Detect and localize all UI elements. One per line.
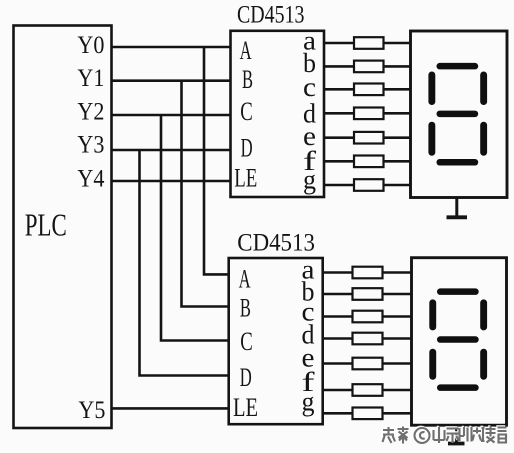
svg-text:CD4513: CD4513 bbox=[237, 230, 315, 257]
ground for DS1 bbox=[447, 198, 468, 217]
svg-text:Y2: Y2 bbox=[77, 99, 104, 126]
7-segment display DS1 box bbox=[411, 31, 508, 198]
svg-text:A: A bbox=[240, 35, 252, 65]
svg-text:B: B bbox=[240, 293, 251, 323]
resistor R14 bbox=[353, 408, 383, 420]
IC U1 CD4513 box (top) bbox=[231, 31, 325, 197]
resistor R12 bbox=[353, 358, 383, 370]
resistor R1 bbox=[354, 37, 384, 49]
svg-text:g: g bbox=[303, 165, 316, 195]
wire branch C vertical to U2.C bbox=[161, 115, 229, 341]
svg-text:D: D bbox=[240, 362, 252, 392]
wire R10 to DS2 bbox=[383, 315, 412, 318]
wire U2.a to R8 bbox=[323, 271, 353, 274]
svg-text:PLC: PLC bbox=[25, 207, 67, 243]
resistor R5 bbox=[354, 132, 384, 144]
wire branch B vertical to U2.B bbox=[182, 81, 229, 307]
svg-text:Y0: Y0 bbox=[77, 32, 104, 59]
wire U1.d to R4 bbox=[324, 112, 354, 115]
resistor R2 bbox=[354, 61, 384, 73]
wire R6 to DS1 bbox=[384, 160, 411, 163]
resistor R11 bbox=[353, 333, 383, 345]
svg-text:D: D bbox=[241, 132, 253, 162]
svg-text:A: A bbox=[239, 263, 251, 293]
watermark 头条@山东创控教育 bbox=[381, 425, 506, 443]
wire U2.c to R10 bbox=[323, 315, 353, 318]
wire U2.e to R12 bbox=[323, 362, 353, 365]
wire U2.f to R13 bbox=[323, 389, 353, 392]
wire U1.b to R2 bbox=[324, 65, 354, 68]
ground for DS2 bbox=[448, 425, 465, 443]
svg-text:LE: LE bbox=[233, 392, 258, 422]
svg-text:C: C bbox=[240, 96, 253, 126]
wire U2.b to R9 bbox=[323, 293, 353, 296]
wire U1.f to R6 bbox=[324, 160, 354, 163]
wire R11 to DS2 bbox=[383, 337, 412, 340]
wire U1.g to R7 bbox=[324, 184, 354, 187]
svg-text:Y4: Y4 bbox=[77, 166, 104, 193]
svg-text:C: C bbox=[240, 326, 253, 356]
resistor R3 bbox=[354, 84, 384, 96]
wire R3 to DS1 bbox=[384, 88, 411, 91]
wire U2.d to R11 bbox=[323, 337, 353, 340]
wire R12 to DS2 bbox=[383, 362, 412, 365]
wire R14 to DS2 bbox=[383, 412, 412, 415]
resistor R10 bbox=[353, 311, 383, 323]
wire Y0 to U1.A bbox=[112, 46, 231, 49]
wire Y4 to U1.LE bbox=[112, 180, 231, 183]
wire R1 to DS1 bbox=[384, 42, 411, 45]
wire Y3 to U1.D bbox=[112, 149, 231, 152]
wire branch D vertical to U2.D bbox=[140, 150, 229, 376]
svg-text:LE: LE bbox=[234, 162, 257, 192]
wire R4 to DS1 bbox=[384, 112, 411, 115]
wire Y2 to U1.C bbox=[112, 114, 231, 117]
wire U1.e to R5 bbox=[324, 136, 354, 139]
IC U2 CD4513 box (bottom) bbox=[229, 258, 323, 424]
svg-text:c: c bbox=[303, 72, 316, 102]
display DS2 digit 8 segments bbox=[429, 288, 487, 391]
wire R2 to DS1 bbox=[384, 65, 411, 68]
wire U2.g to R14 bbox=[323, 412, 353, 415]
wire R13 to DS2 bbox=[383, 389, 412, 392]
wire R9 to DS2 bbox=[383, 293, 412, 296]
wire R8 to DS2 bbox=[383, 271, 412, 274]
PLC box bbox=[14, 26, 112, 429]
resistor R9 bbox=[353, 288, 383, 300]
resistor R6 bbox=[354, 156, 384, 168]
svg-text:B: B bbox=[242, 64, 253, 94]
resistor R8 bbox=[353, 267, 383, 279]
wire Y5 to U2.LE bbox=[112, 407, 229, 410]
svg-text:Y1: Y1 bbox=[77, 65, 104, 92]
svg-text:g: g bbox=[302, 387, 315, 417]
wire branch A vertical to U2.A bbox=[204, 47, 229, 274]
resistor R7 bbox=[354, 179, 384, 191]
svg-text:CD4513: CD4513 bbox=[237, 2, 305, 29]
wire U1.a to R1 bbox=[324, 42, 354, 45]
7-segment display DS2 box bbox=[412, 258, 507, 426]
wire R7 to DS1 bbox=[384, 184, 411, 187]
svg-text:Y5: Y5 bbox=[78, 397, 105, 424]
display DS1 digit 8 segments bbox=[428, 63, 487, 166]
wire R5 to DS1 bbox=[384, 136, 411, 139]
wire Y1 to U1.B bbox=[112, 79, 231, 82]
resistor R13 bbox=[353, 384, 383, 396]
wire U1.c to R3 bbox=[324, 88, 354, 91]
svg-text:Y3: Y3 bbox=[77, 132, 104, 159]
resistor R4 bbox=[354, 108, 384, 120]
